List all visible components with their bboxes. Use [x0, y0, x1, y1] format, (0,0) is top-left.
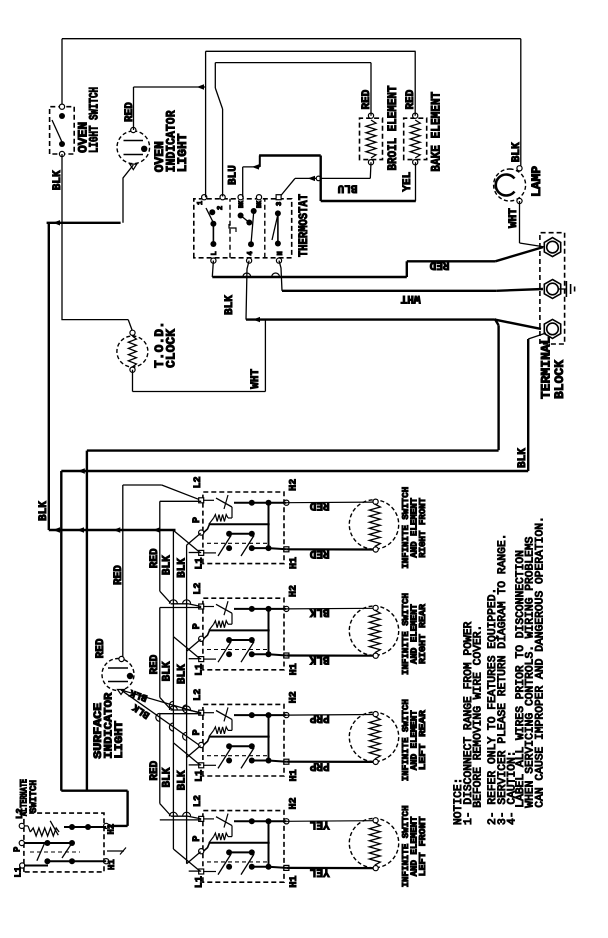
svg-text:WHT: WHT [400, 292, 420, 304]
svg-text:RIGHT REAR: RIGHT REAR [417, 604, 428, 664]
svg-text:RED: RED [113, 565, 125, 585]
svg-text:H1: H1 [289, 876, 300, 888]
svg-text:BLK: BLK [511, 142, 523, 162]
svg-text:H2: H2 [289, 585, 300, 597]
svg-text:BAKE ELEMENT: BAKE ELEMENT [429, 92, 444, 172]
svg-text:H1: H1 [289, 557, 300, 569]
svg-text:YEL: YEL [309, 818, 329, 830]
svg-text:H1: H1 [289, 769, 300, 781]
svg-text:L1: L1 [195, 770, 206, 782]
svg-text:H2: H2 [289, 691, 300, 703]
svg-text:L1: L1 [14, 866, 24, 877]
svg-text:PRP: PRP [309, 712, 329, 724]
svg-text:RED: RED [124, 102, 136, 122]
svg-text:P: P [13, 846, 23, 852]
svg-text:PRP: PRP [309, 759, 329, 771]
svg-text:BLK: BLK [309, 605, 329, 617]
svg-text:RED: RED [429, 258, 449, 270]
svg-text:BLU: BLU [228, 165, 240, 185]
svg-text:H2: H2 [289, 797, 300, 809]
svg-text:L: L [211, 251, 219, 255]
svg-text:BLK: BLK [162, 661, 174, 681]
svg-text:CAN CAUSE IMPROPER AND DANGERO: CAN CAUSE IMPROPER AND DANGEROUS OPERATI… [534, 516, 546, 808]
svg-text:BLK: BLK [177, 664, 189, 684]
svg-text:BLK: BLK [38, 501, 50, 521]
svg-text:H1: H1 [289, 663, 300, 675]
svg-text:L1: L1 [195, 664, 206, 676]
svg-text:WHT: WHT [250, 368, 262, 388]
svg-text:P: P [192, 729, 203, 735]
svg-text:RED: RED [309, 547, 329, 559]
svg-text:LIGHT SWITCH: LIGHT SWITCH [87, 87, 102, 153]
svg-text:3: 3 [276, 202, 284, 206]
svg-text:BLOCK: BLOCK [552, 360, 567, 399]
svg-text:RIGHT FRONT: RIGHT FRONT [417, 497, 428, 557]
svg-text:THERMOSTAT: THERMOSTAT [296, 194, 311, 257]
svg-text:LIGHT: LIGHT [114, 720, 126, 758]
svg-text:1: 1 [197, 201, 205, 205]
svg-text:L1: L1 [195, 557, 206, 569]
svg-text:RED: RED [149, 654, 161, 674]
svg-text:YEL: YEL [309, 866, 329, 878]
svg-text:BK: BK [256, 200, 263, 208]
svg-text:H2: H2 [107, 824, 117, 835]
svg-text:P: P [192, 517, 203, 523]
svg-text:BLK: BLK [224, 295, 236, 315]
svg-text:SWITCH: SWITCH [28, 780, 40, 813]
svg-text:BROIL ELEMENT: BROIL ELEMENT [385, 85, 400, 170]
svg-text:YEL: YEL [402, 171, 414, 191]
svg-text:P: P [192, 836, 203, 842]
svg-text:BEFORE REMOVING WIRE COVER.: BEFORE REMOVING WIRE COVER. [473, 625, 485, 808]
svg-text:BLK: BLK [309, 653, 329, 665]
svg-text:WHT: WHT [508, 208, 520, 228]
svg-text:H2: H2 [289, 479, 300, 491]
svg-text:LIGHT: LIGHT [175, 133, 190, 172]
svg-text:N: N [277, 251, 285, 255]
svg-text:H1: H1 [107, 859, 117, 870]
svg-text:RED: RED [309, 499, 329, 511]
svg-text:BK: BK [238, 200, 245, 208]
svg-text:RED: RED [361, 89, 373, 109]
svg-text:4: 4 [247, 251, 255, 255]
svg-text:LAMP: LAMP [529, 166, 544, 197]
svg-text:BLU: BLU [338, 182, 358, 194]
svg-text:BLK: BLK [517, 448, 529, 468]
svg-text:L2: L2 [193, 583, 204, 595]
svg-text:LEFT REAR: LEFT REAR [417, 710, 428, 770]
svg-text:BLK: BLK [177, 770, 189, 790]
svg-text:BLK: BLK [162, 767, 174, 787]
svg-text:RED: RED [149, 760, 161, 780]
svg-text:BLK: BLK [177, 558, 189, 578]
svg-text:RED: RED [405, 89, 417, 109]
svg-text:L2: L2 [193, 689, 204, 701]
svg-text:RED: RED [95, 638, 107, 658]
svg-text:RED: RED [149, 548, 161, 568]
svg-text:2: 2 [217, 206, 225, 210]
svg-text:L1: L1 [195, 876, 206, 888]
svg-text:LEFT FRONT: LEFT FRONT [417, 816, 428, 876]
svg-text:L2: L2 [193, 476, 204, 488]
svg-text:CLOCK: CLOCK [164, 329, 179, 368]
svg-text:L2: L2 [193, 795, 204, 807]
svg-text:BLK: BLK [162, 555, 174, 575]
svg-text:P: P [192, 623, 203, 629]
